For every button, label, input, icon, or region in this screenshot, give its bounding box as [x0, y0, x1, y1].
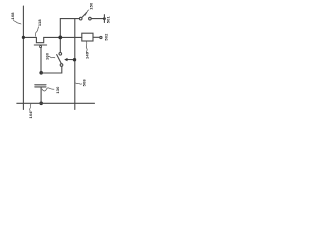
terminal circle at box output — [100, 36, 102, 38]
box U1 — [82, 33, 93, 41]
wire: left vertical bus line — [22, 6, 24, 110]
svg-text:100: 100 — [45, 52, 50, 60]
switch S1 right terminal circle — [89, 17, 92, 20]
svg-text:104: 104 — [28, 111, 33, 119]
wire: gate lead down to node — [40, 48, 42, 73]
svg-text:149: 149 — [85, 51, 90, 59]
leader to label 149 — [85, 42, 88, 53]
wire: top rail with transistor channel notch — [23, 37, 81, 42]
capacitor C1 top plate — [35, 84, 46, 86]
svg-text:508: 508 — [82, 79, 87, 87]
leader to label 104 — [30, 104, 31, 112]
leader to label 150 — [85, 10, 89, 15]
switch S2 top terminal circle — [59, 53, 62, 56]
wire: horizontal from node A to switch bottom — [41, 66, 62, 73]
svg-text:118: 118 — [37, 19, 42, 27]
leader to label 508 — [76, 83, 82, 84]
wire: box output — [93, 36, 100, 38]
wire: right vertical line — [74, 19, 76, 110]
switch S1 left terminal circle — [79, 17, 82, 20]
leader to label 100 — [48, 56, 55, 58]
switch S2 bottom terminal circle — [60, 64, 63, 67]
wire: capacitor bottom lead — [40, 87, 42, 103]
svg-text:501: 501 — [105, 15, 110, 23]
svg-text:150: 150 — [89, 2, 94, 10]
leader to label 118 — [35, 27, 38, 36]
node B junction dot on top rail — [58, 36, 62, 40]
leader to label 108 — [13, 20, 21, 24]
node C junction dot on right vertical — [73, 58, 76, 61]
junction dot at left bus / top rail — [22, 36, 25, 39]
node A junction dot gate/cap/switch — [39, 71, 43, 75]
wire: short vertical bar at terminal D — [103, 15, 105, 23]
wire: switch S1 to terminal dot — [91, 18, 104, 20]
leader to label 130 — [42, 88, 54, 91]
node E junction dot on bottom rail — [39, 102, 43, 106]
svg-text:130: 130 — [55, 86, 60, 94]
wire: arrow control wire to switch S2 — [67, 59, 73, 61]
transistor Q1 gate bar — [34, 44, 46, 46]
node D terminal junction dot — [103, 17, 106, 20]
capacitor C1 bottom plate — [35, 86, 46, 88]
switch S2 blade — [57, 55, 62, 64]
svg-text:108: 108 — [10, 12, 15, 20]
wire: middle vertical from switch top to rail and up to top wire — [60, 19, 79, 53]
transistor Q1 gate bubble — [40, 46, 42, 48]
wire: bottom rail — [17, 102, 95, 104]
svg-text:502: 502 — [104, 33, 109, 41]
arrowhead pointing at switch S2 — [64, 58, 67, 61]
switch S1 blade — [82, 13, 86, 17]
